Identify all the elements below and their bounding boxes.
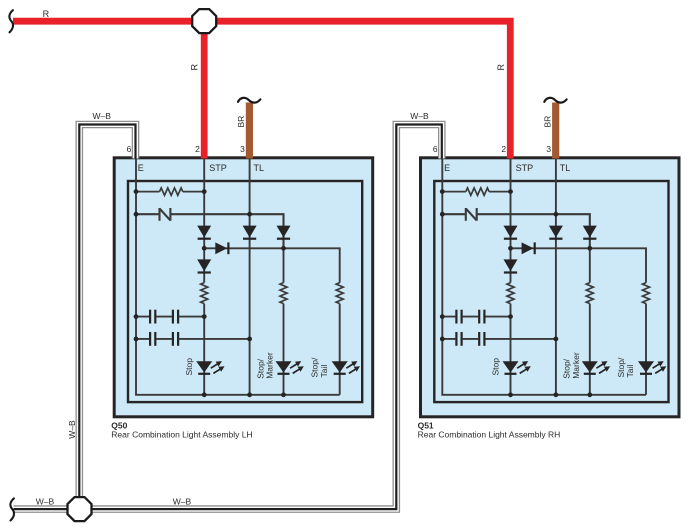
diode D1 (Q51) <box>504 226 518 239</box>
wire break symbol (R, left) <box>9 10 13 32</box>
svg-text:6: 6 <box>433 144 438 154</box>
wire break symbol (W-B, bottom left) <box>10 498 14 520</box>
diode D1 (Q50) <box>197 226 211 239</box>
svg-text:W–B: W–B <box>92 111 111 121</box>
svg-text:BR: BR <box>543 116 553 128</box>
junction nodes (Q50) <box>134 189 286 397</box>
svg-text:E: E <box>138 163 144 173</box>
LED Stop/Marker (Q51) <box>582 361 610 374</box>
splice junction (R net) <box>192 9 216 33</box>
svg-text:BR: BR <box>236 116 246 128</box>
LED Stop/Tail (Q51) <box>638 361 666 374</box>
svg-text:W–B: W–B <box>36 496 55 506</box>
capacitors C3 C4 (Q51) <box>442 332 556 346</box>
resistor R1 horizontal (Q50) <box>136 188 204 195</box>
svg-text:3: 3 <box>240 144 245 154</box>
svg-text:2: 2 <box>501 144 506 154</box>
svg-text:Rear Combination Light Assembl: Rear Combination Light Assembly LH <box>111 429 252 439</box>
svg-text:3: 3 <box>546 144 551 154</box>
diode D4 TL (Q51) <box>549 226 563 239</box>
resistor R1 horizontal (Q51) <box>442 188 510 195</box>
svg-text:6: 6 <box>127 144 132 154</box>
wire W-B (Q50 pin 6 to junction) <box>79 125 135 499</box>
diode D4 TL (Q50) <box>243 226 257 239</box>
svg-text:2: 2 <box>195 144 200 154</box>
svg-text:STP: STP <box>209 163 227 173</box>
capacitors C3 C4 (Q50) <box>136 332 250 346</box>
resistor R2 vertical STP (Q50) <box>201 283 208 304</box>
left rear combination light inner frame <box>128 181 362 402</box>
svg-text:TL: TL <box>254 163 265 173</box>
left rear combination light outer case <box>114 158 373 417</box>
wire break symbol (BR, right pigtail) <box>544 98 566 103</box>
svg-text:W–B: W–B <box>173 496 192 506</box>
resistor R3 vertical marker (Q51) <box>586 283 593 304</box>
wire W-B (Q51 pin 6 to junction) <box>90 125 442 510</box>
label Stop (Q50) <box>184 358 194 376</box>
wire: marker chain (Q50) <box>283 248 285 282</box>
capacitors C1 C2 (Q51) <box>442 310 510 324</box>
resistor R4 vertical tail (Q50) <box>336 283 343 304</box>
wire: diode row (Q50) <box>204 248 340 282</box>
diode D3 horizontal (Q50) <box>215 242 228 254</box>
svg-text:Stop: Stop <box>184 358 194 376</box>
wire W-B (junction to body ground) <box>14 505 69 513</box>
wire: STP chain to Stop LED (Q51) <box>510 304 512 395</box>
wire: TL pin branch (Q50) <box>249 157 251 395</box>
svg-text:R: R <box>43 9 50 19</box>
diode D5 marker (Q51) <box>583 226 597 239</box>
LED Stop (Q50) <box>196 361 224 374</box>
wire R: drop to Q50 STP <box>201 22 208 159</box>
diode D3 horizontal (Q51) <box>522 242 535 254</box>
svg-text:STP: STP <box>516 163 534 173</box>
wire: marker chain to Stop/Marker LED (Q50) <box>283 304 285 395</box>
component designator Q51 <box>418 421 561 440</box>
svg-text:Rear Combination Light Assembl: Rear Combination Light Assembly RH <box>418 429 561 439</box>
splice junction (W-B net) <box>68 497 92 521</box>
svg-text:R: R <box>496 64 506 71</box>
wire: STP pin branch (Q50) <box>203 157 205 283</box>
wire: E pin to ground rail (Q51) <box>442 157 646 395</box>
varistor N symbol (Q51) <box>442 208 590 248</box>
LED Stop/Marker (Q50) <box>276 361 304 374</box>
svg-text:Marker: Marker <box>265 352 275 379</box>
resistor R3 vertical marker (Q50) <box>280 283 287 304</box>
wire BR to Q51 TL <box>552 103 559 159</box>
svg-text:Tail: Tail <box>625 365 635 378</box>
wire R: stop light feed <box>13 21 510 158</box>
svg-text:E: E <box>444 163 450 173</box>
wire: marker chain (Q51) <box>589 248 591 282</box>
svg-text:TL: TL <box>560 163 571 173</box>
wire: tail chain to Stop/Tail LED (Q51) <box>645 304 647 395</box>
wire: TL pin branch (Q51) <box>555 157 557 395</box>
wire: STP pin branch (Q51) <box>510 157 512 283</box>
pin labels E STP TL (Q51) <box>444 163 570 173</box>
LED Stop (Q51) <box>503 361 531 374</box>
LED Stop/Tail (Q50) <box>332 361 360 374</box>
diode D2 (Q51) <box>504 259 518 272</box>
wire: diode row (Q51) <box>511 248 647 282</box>
label Stop/Marker (Q51) <box>562 352 581 379</box>
wire: marker chain to Stop/Marker LED (Q51) <box>589 304 591 395</box>
svg-text:Marker: Marker <box>571 352 581 379</box>
wire break symbol (BR, left pigtail) <box>238 98 260 103</box>
component designator Q50 <box>111 421 252 440</box>
resistor R4 vertical tail (Q51) <box>643 283 650 304</box>
junction nodes (Q51) <box>440 189 592 397</box>
svg-text:W–B: W–B <box>410 111 429 121</box>
wire BR to Q50 TL <box>246 103 253 159</box>
svg-text:R: R <box>190 64 200 71</box>
wire: E pin to ground rail (Q50) <box>136 157 340 395</box>
label Stop (Q51) <box>491 358 501 376</box>
svg-text:Tail: Tail <box>319 365 329 378</box>
varistor N symbol (Q50) <box>136 208 284 248</box>
right rear combination light outer case <box>421 158 680 417</box>
capacitors C1 C2 (Q50) <box>136 310 204 324</box>
resistor R2 vertical STP (Q51) <box>507 283 514 304</box>
wire: tail chain to Stop/Tail LED (Q50) <box>339 304 341 395</box>
diode D2 (Q50) <box>197 259 211 272</box>
right rear combination light inner frame <box>434 181 668 402</box>
pin labels E STP TL (Q50) <box>138 163 264 173</box>
label Stop/Tail (Q51) <box>616 357 635 377</box>
label Stop/Tail (Q50) <box>310 357 329 377</box>
svg-text:W–B: W–B <box>67 420 77 439</box>
svg-text:Stop: Stop <box>491 358 501 376</box>
diode D5 marker (Q50) <box>277 226 291 239</box>
wire: STP chain to Stop LED (Q50) <box>203 304 205 395</box>
label Stop/Marker (Q50) <box>255 352 274 379</box>
